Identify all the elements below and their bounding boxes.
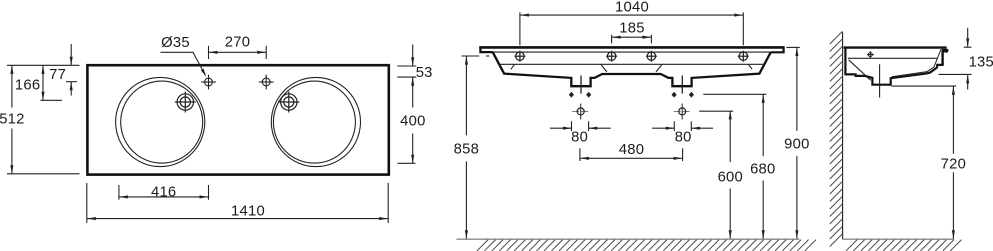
right drain fixing diamond L <box>672 92 677 98</box>
side view inner bowl wall (thin) <box>892 49 941 77</box>
wall face line <box>842 32 844 240</box>
svg-text:480: 480 <box>619 142 644 158</box>
left basin drain symbol <box>175 92 196 113</box>
left drain fixing diamond L <box>569 92 574 98</box>
inner bowl slant right of centre <box>656 64 662 72</box>
side view bowl underside outline (bold) <box>845 65 943 85</box>
dim 512 (worktop depth) <box>11 65 13 107</box>
dim 680 (fixing diamond height) <box>703 93 766 95</box>
side view top surface (bold) <box>844 46 947 48</box>
dim 900 (top height) <box>786 46 800 48</box>
left waste outlet position mark <box>572 104 589 120</box>
dim 480 (drain spacing) <box>579 148 581 161</box>
side view front edge (bold) <box>941 51 943 65</box>
side view floor hatching <box>846 240 962 251</box>
side view bowl inner slant left <box>849 60 871 80</box>
fixing hole cross at x=611.6 <box>606 51 617 62</box>
dim 400 (basin diameter) <box>412 134 414 164</box>
left basin inner rim <box>121 81 203 163</box>
front view slab bottom edge <box>493 51 772 53</box>
dim 416 <box>118 185 120 200</box>
dim 720 (underside to floor) <box>892 85 957 87</box>
svg-text:1410: 1410 <box>231 204 265 220</box>
dim 1040 (outer fixing holes) <box>519 12 521 45</box>
left drain centreline <box>580 76 582 94</box>
right faucet hole cross <box>259 75 274 90</box>
front view right end hook <box>771 46 783 52</box>
right drain fixing diamond R <box>689 92 694 98</box>
svg-text:400: 400 <box>400 114 425 130</box>
svg-text:720: 720 <box>941 157 966 173</box>
svg-text:80: 80 <box>571 130 588 146</box>
dim 80 left <box>571 121 573 131</box>
side view inner rim line <box>848 57 938 59</box>
svg-text:270: 270 <box>225 35 250 51</box>
extension line bottom edge <box>7 173 80 175</box>
front view inner rim line <box>500 63 764 65</box>
left basin outer rim <box>116 77 205 166</box>
dim 80 right <box>673 121 675 131</box>
svg-text:53: 53 <box>416 65 433 81</box>
left faucet hole cross <box>201 75 216 90</box>
svg-text:77: 77 <box>49 67 66 83</box>
dim 270 (faucet spacing) <box>208 46 210 59</box>
extension line top edge <box>7 64 80 66</box>
svg-text:Ø35: Ø35 <box>161 35 190 51</box>
right basin inner rim <box>273 81 355 163</box>
front view floor line <box>457 238 800 240</box>
right basin drain symbol <box>278 92 299 113</box>
svg-text:416: 416 <box>151 185 176 201</box>
svg-text:135: 135 <box>969 54 993 70</box>
dim 1410 (worktop width) <box>86 183 88 223</box>
dim 600 (waste outlet height) <box>699 110 733 112</box>
fixing hole cross at x=651.4 <box>646 51 657 62</box>
right basin outer rim <box>271 77 360 166</box>
front view floor hatching <box>477 240 816 251</box>
rim curl left <box>511 64 515 69</box>
svg-text:900: 900 <box>784 137 809 153</box>
side view faucet hole <box>867 51 874 58</box>
fixing hole cross at x=743.3 <box>738 51 749 62</box>
left drain fixing diamond R <box>586 92 591 98</box>
svg-text:1040: 1040 <box>615 0 649 16</box>
inner bowl slant left of centre <box>601 64 607 72</box>
side view back edge (bold) <box>844 47 846 75</box>
dim 185 (inner fixing holes) <box>611 35 613 44</box>
dim 166 (drain from back) <box>42 65 44 100</box>
svg-text:600: 600 <box>718 170 743 186</box>
svg-text:680: 680 <box>750 162 775 178</box>
front view bowl/apron bottom outline (bold) <box>493 52 771 86</box>
side view floor line <box>843 238 954 240</box>
O35 leader line <box>161 52 205 73</box>
right drain centreline <box>681 76 683 94</box>
right waste outlet position mark <box>674 104 691 120</box>
svg-text:80: 80 <box>675 130 692 146</box>
front view left end cap <box>480 46 492 52</box>
worktop outline (plan) <box>87 65 388 174</box>
rim curl right <box>748 64 752 69</box>
side view drain centreline <box>879 64 881 97</box>
dim 135 (fixture height) <box>964 46 972 48</box>
wall hatching <box>830 31 843 246</box>
svg-text:858: 858 <box>454 142 479 158</box>
svg-text:512: 512 <box>0 111 25 127</box>
dim 53 (basin edge from back) <box>397 65 416 67</box>
svg-text:185: 185 <box>619 21 644 37</box>
front view worktop top edge (bold) <box>479 46 784 49</box>
fixing hole cross at x=519.9 <box>514 51 525 62</box>
dim 858 (underside height) <box>462 55 480 57</box>
svg-text:166: 166 <box>15 77 40 93</box>
tick at drain axis <box>41 99 63 101</box>
dim 77 (faucet from back) <box>70 44 72 65</box>
side view front lip hook (bold) <box>942 49 949 53</box>
O35 leader arrowhead <box>201 69 206 77</box>
